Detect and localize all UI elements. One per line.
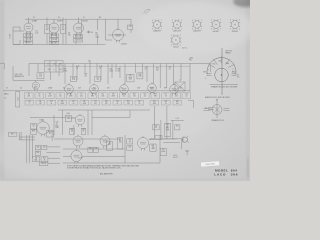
capacitor C26 value box row2 xyxy=(162,100,171,105)
svg-text:117Z3: 117Z3 xyxy=(79,158,83,160)
coil L26 xyxy=(112,25,133,35)
svg-text:95V: 95V xyxy=(93,87,96,89)
wire drop x74 band3 xyxy=(73,125,75,135)
wire drop x160 xyxy=(159,64,161,89)
svg-text:R1: R1 xyxy=(28,94,30,96)
label to spkr plug xyxy=(205,108,214,110)
tube V15 35Z5 rectifier xyxy=(71,149,82,164)
svg-text:IF: IF xyxy=(46,27,47,29)
wire drop x62 band3 xyxy=(62,110,64,135)
svg-text:220K: 220K xyxy=(110,70,114,72)
svg-text:20: 20 xyxy=(145,68,147,70)
capacitor C14 value box xyxy=(120,93,129,99)
svg-text:95V: 95V xyxy=(34,87,37,89)
svg-text:3.2: 3.2 xyxy=(237,75,239,77)
svg-text:12SA7GT: 12SA7GT xyxy=(153,30,162,33)
svg-text:35Z5: 35Z5 xyxy=(150,87,153,89)
svg-text:B+: B+ xyxy=(89,61,91,63)
svg-text:150: 150 xyxy=(133,96,136,98)
resistor R1 value box xyxy=(25,93,34,99)
svg-text:6.3: 6.3 xyxy=(20,87,22,89)
wire drop x77 xyxy=(76,66,78,80)
svg-text:.02: .02 xyxy=(185,96,187,98)
wire V1 cathode drop xyxy=(27,32,31,44)
fuse box xyxy=(160,148,166,156)
svg-text:L2: L2 xyxy=(47,64,49,66)
capacitor C4 label xyxy=(36,31,39,35)
wire band3 bottom rail xyxy=(54,138,177,140)
svg-text:BLK: BLK xyxy=(204,71,207,73)
IF transformer T1 xyxy=(45,19,50,44)
tube V10 output xyxy=(170,83,179,95)
capacitor C41 box xyxy=(39,162,48,165)
svg-text:456: 456 xyxy=(62,29,65,31)
wire bottom center rails xyxy=(63,149,160,163)
wire heater bus xyxy=(63,65,190,67)
svg-text:C15: C15 xyxy=(96,77,99,79)
svg-text:.02: .02 xyxy=(116,103,118,105)
wire B+ top bus (converter strip) xyxy=(25,18,131,20)
wire B+ main bus xyxy=(29,61,211,64)
svg-text:T4: T4 xyxy=(109,142,111,144)
svg-text:12SK7: 12SK7 xyxy=(57,21,63,23)
resistor R13 value box xyxy=(151,93,160,99)
capacitor C24 value box row2 xyxy=(113,100,122,105)
capacitor C8 label xyxy=(68,33,71,37)
svg-text:R2 470: R2 470 xyxy=(26,42,31,44)
svg-text:117V: 117V xyxy=(179,87,182,89)
svg-text:T3: T3 xyxy=(179,80,181,82)
trimmer box C13 xyxy=(37,73,44,79)
speaker socket right lug xyxy=(232,71,241,78)
svg-text:470: 470 xyxy=(156,69,159,71)
wire bottom h1 xyxy=(19,136,35,138)
label osc coil xyxy=(15,74,24,78)
wire drop x54 band3 xyxy=(53,115,55,135)
svg-text:50: 50 xyxy=(50,103,52,105)
svg-text:R4: R4 xyxy=(39,101,41,103)
svg-text:3.2 V.C.: 3.2 V.C. xyxy=(182,48,188,50)
resistor R30 box xyxy=(35,146,40,150)
wire bottom feed3 xyxy=(48,157,60,159)
wire drop x161 band3 xyxy=(160,120,162,139)
svg-text:150V: 150V xyxy=(166,129,169,131)
svg-text:456: 456 xyxy=(46,29,49,31)
coil L100 box xyxy=(65,113,71,121)
svg-text:12SA7: 12SA7 xyxy=(32,20,38,23)
svg-text:OUT: OUT xyxy=(108,144,111,146)
resistor R21 box xyxy=(70,128,75,134)
speaker voice coil inner circle xyxy=(215,68,229,82)
resistor R10 box xyxy=(71,77,77,82)
svg-text:470K: 470K xyxy=(112,96,116,98)
wire speaker center line xyxy=(221,48,223,95)
filter choke box xyxy=(118,138,123,150)
wire drop x153 xyxy=(152,64,154,84)
label LACO 366 xyxy=(214,173,238,177)
svg-text:90V: 90V xyxy=(164,87,167,89)
wire drop x154 band3 xyxy=(154,106,156,139)
switch SW1 on-off xyxy=(9,132,17,136)
svg-text:150V: 150V xyxy=(129,79,132,81)
resistor R31 box xyxy=(35,151,40,155)
wire drop x142 xyxy=(141,64,143,73)
svg-text:C25: C25 xyxy=(138,101,141,103)
ballast box xyxy=(32,157,39,162)
tube V13 12SK7 IF2 xyxy=(73,135,83,149)
svg-text:OUT-PUT: OUT-PUT xyxy=(225,51,232,53)
svg-text:C18: C18 xyxy=(185,94,188,96)
svg-text:.05: .05 xyxy=(76,67,78,69)
svg-text:C14: C14 xyxy=(122,94,125,96)
svg-text:C7: C7 xyxy=(59,94,61,96)
resistor R3 cluster under V2 xyxy=(50,34,59,45)
svg-text:470: 470 xyxy=(176,103,179,105)
label cluster right of V12 xyxy=(56,122,60,130)
svg-text:R23: R23 xyxy=(156,68,159,70)
wire V4 plate up xyxy=(117,19,119,29)
wire drop x135 xyxy=(134,64,136,73)
tube V6 12SK7 xyxy=(65,83,74,95)
capacitor C37 box xyxy=(127,139,133,144)
wire bus ticks xyxy=(29,18,79,20)
svg-text:6.3V: 6.3V xyxy=(78,87,81,89)
svg-text:C36: C36 xyxy=(95,148,98,150)
svg-text:MFD: MFD xyxy=(166,128,169,130)
label output trans xyxy=(225,51,232,55)
svg-text:47K: 47K xyxy=(105,103,108,105)
wire band3 rail2 xyxy=(30,117,66,119)
tube V4 12SQ7 first audio xyxy=(113,28,127,46)
label under V15 xyxy=(79,158,83,160)
coil L23 xyxy=(171,118,184,121)
svg-text:R5: R5 xyxy=(70,94,72,96)
wire drop x32.4 xyxy=(31,135,33,158)
capacitor C21 value box row2 xyxy=(47,100,56,105)
svg-text:C16: C16 xyxy=(143,94,146,96)
resistor R18 box xyxy=(31,130,37,135)
AC plug xyxy=(182,136,189,143)
wire V2 screen drops xyxy=(52,33,57,45)
svg-text:C6 .05: C6 .05 xyxy=(52,39,57,41)
tube V8 50L6 xyxy=(120,83,129,95)
wire gang line xyxy=(13,66,45,80)
svg-text:.02: .02 xyxy=(99,67,101,69)
svg-text:R31: R31 xyxy=(37,152,40,154)
wire plug top lead xyxy=(216,99,217,104)
wire drop x101 xyxy=(100,66,102,80)
svg-text:PILOT: PILOT xyxy=(48,131,52,133)
svg-text:.005: .005 xyxy=(101,96,104,98)
resistor R15 value box xyxy=(172,93,181,99)
tube socket legend ballast xyxy=(170,35,181,49)
svg-text:R20: R20 xyxy=(56,125,59,127)
wire band3 top rail xyxy=(58,109,150,111)
capacitor C16 value box xyxy=(141,93,150,99)
svg-text:SW 1: SW 1 xyxy=(11,133,15,135)
electrolytic C33 box xyxy=(164,123,171,136)
capacitor C19 value box row2 xyxy=(25,100,34,105)
speaker socket segment spokes xyxy=(209,56,235,67)
label above top bus C2 xyxy=(33,17,35,19)
svg-text:R12: R12 xyxy=(127,101,130,103)
svg-text:12SQ7: 12SQ7 xyxy=(173,47,179,49)
wire drop x112 xyxy=(111,64,113,79)
speaker socket dome xyxy=(207,58,236,75)
wire drop x85 xyxy=(84,64,86,75)
resistor R21b label xyxy=(118,69,121,73)
svg-text:500K: 500K xyxy=(61,103,64,105)
svg-text:.05: .05 xyxy=(38,96,40,98)
svg-text:C5: C5 xyxy=(38,94,40,96)
svg-text:R17: R17 xyxy=(64,69,67,71)
svg-text:L-100: L-100 xyxy=(66,113,70,115)
resistor R6 value box row2 xyxy=(58,100,67,105)
resistor R28 box xyxy=(150,144,156,151)
svg-text:R10: R10 xyxy=(105,101,108,103)
svg-text:366: 366 xyxy=(231,173,238,177)
wire sw drops xyxy=(19,132,21,140)
wire drop x181b xyxy=(180,64,182,81)
wire bottom feed2 xyxy=(47,152,61,154)
wire drop x108 xyxy=(107,64,109,85)
svg-text:.05: .05 xyxy=(129,141,131,143)
svg-text:33: 33 xyxy=(152,147,154,149)
label above top bus C7 xyxy=(83,17,85,19)
svg-text:100: 100 xyxy=(36,33,39,35)
capacitor C10 coupling xyxy=(87,31,93,34)
svg-text:.05: .05 xyxy=(144,96,146,98)
svg-text:47K: 47K xyxy=(72,79,75,81)
wire junction x105.5 xyxy=(105,19,107,40)
svg-text:C32: C32 xyxy=(155,126,158,128)
svg-text:L-23: L-23 xyxy=(175,118,178,120)
wire drop x52 xyxy=(51,130,53,141)
resistor R16 value box row2 xyxy=(173,100,182,105)
svg-text:C9 .01: C9 .01 xyxy=(76,40,81,42)
resistor R8 value box row2 xyxy=(80,100,89,105)
wire drop x92 band3 xyxy=(91,110,93,135)
svg-text:R13: R13 xyxy=(154,94,157,96)
svg-text:117V: 117V xyxy=(17,97,19,100)
svg-text:R12: R12 xyxy=(110,69,113,71)
svg-text:R8: R8 xyxy=(83,101,85,103)
tube V16 output2 xyxy=(100,135,110,149)
svg-text:500K: 500K xyxy=(96,36,100,38)
speaker socket left lug xyxy=(204,71,212,80)
resistor R3 value box xyxy=(46,93,55,99)
svg-text:35Z5GT: 35Z5GT xyxy=(232,31,239,33)
capacitor C24b label xyxy=(169,67,172,71)
capacitor C38 box xyxy=(127,146,133,151)
label adapter plug xyxy=(205,96,230,99)
svg-text:22K: 22K xyxy=(27,96,30,98)
svg-text:R14: R14 xyxy=(153,101,156,103)
svg-text:R21: R21 xyxy=(71,129,74,131)
resistor R4 value box row2 xyxy=(36,100,45,105)
resistor R26 box xyxy=(88,147,93,152)
svg-text:T1: T1 xyxy=(46,25,48,27)
filter box C20 xyxy=(127,74,135,82)
svg-text:FUSE: FUSE xyxy=(161,151,165,153)
note text xyxy=(67,165,140,170)
svg-text:470K: 470K xyxy=(69,96,73,98)
svg-text:250: 250 xyxy=(68,35,71,37)
tube V1 12SA7 converter xyxy=(24,20,37,35)
resistor R11 value box xyxy=(130,93,139,99)
svg-text:L44: L44 xyxy=(35,158,38,160)
svg-text:C21: C21 xyxy=(50,101,53,103)
svg-text:12SQ7: 12SQ7 xyxy=(82,21,88,23)
resistor R12 value box row2 xyxy=(124,100,133,105)
svg-text:C8: C8 xyxy=(68,33,70,35)
wire V3 drops xyxy=(76,33,81,44)
svg-text:150K: 150K xyxy=(153,103,156,105)
svg-text:12SQ7: 12SQ7 xyxy=(71,118,76,120)
wire plug bottom lead xyxy=(216,115,218,119)
svg-text:C20: C20 xyxy=(129,75,132,77)
resistor box R14 xyxy=(137,73,143,79)
label bus voltages xyxy=(6,86,182,89)
svg-text:50L6GT: 50L6GT xyxy=(213,31,220,33)
svg-text:12SQ7: 12SQ7 xyxy=(121,44,127,46)
svg-text:100: 100 xyxy=(94,103,97,105)
capacitor C36 box xyxy=(94,147,99,152)
svg-text:R9: R9 xyxy=(112,94,114,96)
svg-text:1K: 1K xyxy=(44,159,46,161)
svg-text:100: 100 xyxy=(59,96,62,98)
tube V12 12SA7 converter2 xyxy=(37,118,50,136)
svg-text:C26: C26 xyxy=(164,101,167,103)
svg-text:R10: R10 xyxy=(72,77,75,79)
svg-text:C7: C7 xyxy=(83,17,85,19)
speaker plug left pins xyxy=(204,109,213,111)
svg-text:R26: R26 xyxy=(89,148,92,150)
svg-text:R11: R11 xyxy=(133,94,136,96)
svg-text:R9: R9 xyxy=(99,17,101,19)
svg-text:117V: 117V xyxy=(137,87,140,89)
svg-text:F1: F1 xyxy=(162,149,164,151)
svg-text:0V: 0V xyxy=(6,87,8,89)
svg-text:450: 450 xyxy=(191,58,194,60)
capacitor C39 sym xyxy=(186,150,189,155)
wire drop x125 bottom xyxy=(124,135,126,163)
svg-text:.05: .05 xyxy=(169,68,171,70)
svg-text:C-22: C-22 xyxy=(145,67,148,69)
wire drop x26.8 xyxy=(26,135,28,163)
resistor R22 box xyxy=(81,128,86,134)
svg-text:L26: L26 xyxy=(129,26,132,28)
wire drop x120 xyxy=(119,66,121,78)
resistor R32 box xyxy=(41,157,48,162)
capacitor C28 box xyxy=(31,124,37,130)
svg-text:R3 100K: R3 100K xyxy=(51,35,57,37)
svg-text:LACO: LACO xyxy=(214,173,226,177)
svg-text:C24: C24 xyxy=(116,101,119,103)
wire bottom feed1 xyxy=(47,146,61,148)
tube socket legend 50L6GT xyxy=(211,19,221,32)
svg-text:33K: 33K xyxy=(154,96,157,98)
svg-text:220K: 220K xyxy=(83,103,86,105)
wire bottom h2 xyxy=(19,139,35,141)
oscillator coil block xyxy=(45,61,64,73)
svg-text:.02: .02 xyxy=(123,96,125,98)
wire drop x73 xyxy=(72,64,74,77)
output transformer X box xyxy=(175,80,185,91)
svg-text:470: 470 xyxy=(118,70,121,72)
svg-text:.01: .01 xyxy=(165,96,167,98)
svg-text:C22: C22 xyxy=(72,101,75,103)
label speaker plug xyxy=(211,119,224,122)
wire lower bus (IF strip) xyxy=(13,43,106,45)
wire loop to V1 xyxy=(13,30,24,32)
tube V3 12SQ7 det-AVC xyxy=(74,21,88,36)
svg-text:R21: R21 xyxy=(118,69,121,71)
capacitor C7 value box xyxy=(56,93,65,99)
svg-text:C38: C38 xyxy=(129,147,132,149)
svg-text:R24: R24 xyxy=(176,126,179,128)
svg-text:C13: C13 xyxy=(39,74,42,76)
svg-text:R32: R32 xyxy=(43,158,46,160)
svg-text:.05: .05 xyxy=(72,103,74,105)
capacitor C5 value box xyxy=(35,93,44,99)
resistor R5 cluster under V3 xyxy=(74,35,83,43)
svg-text:470: 470 xyxy=(175,96,178,98)
terminal strip box xyxy=(155,136,162,140)
svg-text:IF: IF xyxy=(62,27,63,29)
label art amplifier xyxy=(100,173,113,176)
svg-text:R3: R3 xyxy=(49,94,51,96)
svg-text:R14: R14 xyxy=(139,74,142,76)
svg-text:3-30: 3-30 xyxy=(39,76,42,78)
svg-text:C33: C33 xyxy=(166,124,169,126)
resistor R10 value box row2 xyxy=(102,100,111,105)
svg-text:C30: C30 xyxy=(56,122,59,124)
wire drop x50b xyxy=(50,72,52,80)
svg-text:VOLTMETER AT NO SIGNAL POSITIO: VOLTMETER AT NO SIGNAL POSITION. ALL VAL… xyxy=(67,167,122,170)
svg-text:R1 22K: R1 22K xyxy=(25,35,31,37)
capacitor C22b label xyxy=(145,67,148,71)
wire drop x88 band3 xyxy=(87,110,89,135)
resistor R19 label xyxy=(85,74,88,78)
wire V4 grid xyxy=(108,34,113,36)
svg-text:C-13: C-13 xyxy=(76,66,79,68)
svg-text:450: 450 xyxy=(219,61,222,63)
tube V11 12SQ7 detector xyxy=(71,114,85,127)
svg-text:.1: .1 xyxy=(53,69,54,71)
svg-text:C17: C17 xyxy=(164,94,167,96)
speaker plug right pins xyxy=(224,109,230,111)
svg-text:12SQ7GT: 12SQ7GT xyxy=(193,31,202,33)
capacitor C23 value box row2 xyxy=(91,100,100,105)
svg-text:C3 .05: C3 .05 xyxy=(26,39,31,41)
speaker socket base line xyxy=(210,83,239,85)
label field coil lead xyxy=(182,48,188,50)
speaker socket segment labels xyxy=(209,61,234,72)
svg-text:C37: C37 xyxy=(129,140,132,142)
svg-text:C24: C24 xyxy=(169,67,172,69)
tube socket legend 12SA7GT xyxy=(152,20,162,33)
wire AC line top xyxy=(163,138,183,140)
power transformer vertical label xyxy=(4,92,20,108)
antenna LOOP xyxy=(10,27,20,45)
svg-text:R16: R16 xyxy=(176,101,179,103)
capacitor C17 value box xyxy=(162,93,171,99)
wire drop x181 bottom xyxy=(181,139,183,149)
svg-text:.1: .1 xyxy=(33,126,34,128)
tube V5 oscillator xyxy=(32,81,39,92)
resistor R14 value box row2 xyxy=(150,100,159,105)
